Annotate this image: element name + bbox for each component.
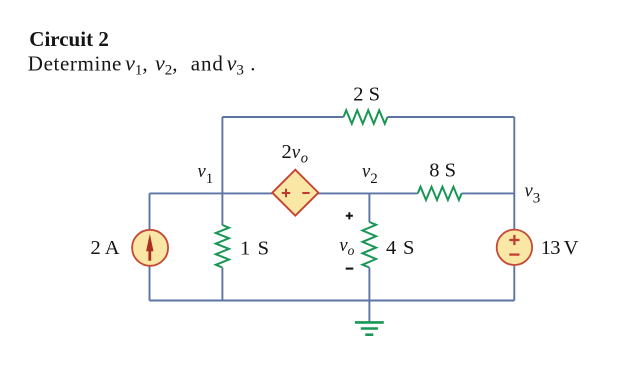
svg-text:2vo: 2vo [282, 141, 309, 166]
voltage source 13 V [497, 230, 532, 265]
wire v1 vertical lower [221, 268, 223, 301]
wire top horizontal left segment [222, 116, 343, 118]
wire right vertical upper [513, 117, 515, 229]
svg-text:4 S: 4 S [386, 237, 415, 259]
label minus (vo polarity) [346, 268, 354, 270]
svg-text:v3: v3 [525, 182, 541, 207]
svg-text:1 S: 1 S [240, 238, 270, 260]
wire middle horizontal center [318, 192, 417, 194]
wire bottom horizontal [150, 300, 515, 302]
wire left vertical lower [149, 266, 151, 301]
svg-text:2 S: 2 S [353, 83, 380, 105]
wire ground stub [368, 301, 370, 323]
wire left vertical upper [149, 193, 151, 229]
wire top horizontal right segment [388, 116, 515, 118]
current source 2 A [132, 230, 168, 266]
wire 4S branch lower [368, 268, 370, 301]
svg-text:2 A: 2 A [91, 237, 120, 259]
svg-text:Determinev1,v2,andv3.: Determinev1,v2,andv3. [28, 50, 256, 78]
ground [355, 321, 384, 324]
dependent source 2vo (diamond) [272, 170, 318, 216]
wire middle horizontal left [150, 192, 273, 194]
label plus (vo polarity) [346, 212, 353, 219]
resistor 4 S [363, 222, 377, 268]
wire right vertical lower [513, 266, 515, 301]
resistor 2 S (top) [344, 110, 388, 123]
wire 4S branch upper [368, 193, 370, 222]
svg-text:13 V: 13 V [541, 237, 579, 259]
wire middle horizontal right [462, 192, 515, 194]
svg-text:Circuit 2: Circuit 2 [29, 27, 109, 51]
wire v1 vertical upper [221, 117, 223, 225]
svg-text:8 S: 8 S [429, 160, 456, 182]
resistor 8 S [418, 187, 462, 200]
svg-text:v1: v1 [198, 162, 214, 187]
resistor 1 S [216, 225, 229, 268]
svg-text:v2: v2 [362, 162, 378, 187]
svg-text:vo: vo [339, 236, 354, 258]
